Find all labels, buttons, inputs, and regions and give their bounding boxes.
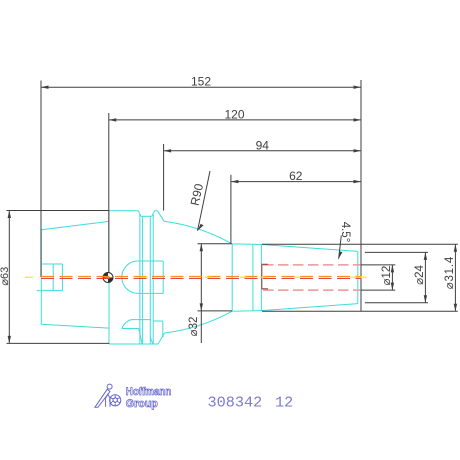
slot capsule top — [138, 260, 163, 262]
v-groove slant right — [152, 211, 155, 217]
left face stub — [37, 290, 43, 292]
ext line left of dim 62 — [230, 175, 232, 244]
svg-text:⌀63: ⌀63 — [0, 267, 11, 286]
svg-text:⌀31.4: ⌀31.4 — [444, 256, 456, 289]
dia24 dim line — [424, 252, 426, 302]
arrows dia24 — [424, 252, 427, 260]
arrows dim 94 — [164, 149, 172, 152]
v-groove line 1 — [139, 214, 141, 344]
slot capsule bottom — [138, 292, 163, 294]
svg-text:12: 12 — [275, 393, 293, 411]
arrow R90 leader — [198, 224, 204, 231]
nose chamfer circle line — [357, 251, 359, 303]
dia31.4 bottom ext — [262, 310, 458, 312]
flange face — [108, 211, 110, 344]
dia24 bottom ext — [365, 302, 428, 304]
dia12 top ext — [361, 264, 395, 266]
slot right step top — [153, 320, 163, 322]
v-groove bottom — [141, 215, 152, 217]
shank section bottom line — [41, 324, 109, 328]
slot scoop top line — [132, 319, 151, 321]
arrows dia32 — [200, 244, 203, 252]
logo gear dots — [115, 395, 116, 396]
4.5deg leader line — [339, 236, 342, 259]
arrows dia12 — [391, 265, 394, 273]
nose cone bottom — [261, 304, 357, 311]
flange chamfer bottom — [158, 333, 165, 344]
flange chamfer top — [158, 211, 165, 221]
coolant bore top — [42, 263, 62, 265]
dia32 bottom ext — [198, 310, 232, 312]
slot capsule right vertical — [162, 261, 164, 293]
slot capsule left arc — [122, 261, 138, 293]
dia24 top ext — [365, 251, 428, 253]
ext line left of dim 94 — [163, 144, 165, 211]
bore hidden line top — [263, 264, 360, 266]
dim 120 line — [109, 119, 361, 121]
slot notch slant right — [150, 337, 153, 344]
svg-text:62: 62 — [289, 169, 303, 183]
svg-text:Hoffmann: Hoffmann — [126, 386, 172, 398]
center line yellow ticks — [25, 276, 367, 278]
dia32 top ext — [198, 243, 232, 245]
shank taper top — [41, 221, 109, 229]
dim 94 line — [164, 150, 361, 152]
arrows dim 152 — [41, 86, 49, 89]
v-groove line 4 — [152, 214, 154, 344]
arrows dia31.4 — [454, 244, 457, 252]
neck cylinder mid vertical — [252, 244, 254, 311]
R90 neck arc top — [164, 221, 232, 244]
svg-text:308342: 308342 — [208, 393, 263, 411]
logo gear star — [113, 397, 118, 403]
R90 leader line — [198, 171, 211, 231]
bore bottom bracket — [262, 264, 268, 289]
slot scoop bottom line — [122, 328, 139, 330]
bore hidden line bottom — [263, 289, 360, 291]
dia12 dim line — [391, 265, 393, 290]
dia12 bottom ext — [361, 289, 395, 291]
center line red — [41, 277, 362, 279]
dia31.4 top ext — [262, 243, 458, 245]
dia63 top ext — [7, 210, 109, 212]
ext line left of dim 152 — [40, 81, 42, 278]
shank left face — [40, 230, 42, 324]
flange top left — [109, 210, 138, 212]
arrows dim 120 — [109, 118, 117, 121]
svg-text:120: 120 — [224, 107, 244, 121]
flange top right — [155, 210, 158, 212]
nose cone top — [261, 245, 357, 252]
v-groove slant left — [138, 211, 141, 217]
dim 62 line — [231, 181, 361, 183]
svg-text:⌀24: ⌀24 — [414, 265, 426, 285]
logo head — [107, 384, 112, 389]
dim 152 line — [41, 86, 361, 88]
logo body — [95, 389, 110, 407]
neck cylinder left vertical — [231, 244, 233, 311]
arrow 4.5deg leader — [339, 251, 343, 259]
coolant bore bottom — [42, 289, 62, 291]
balance mark dot — [103, 273, 113, 283]
slot notch slant left — [139, 329, 143, 345]
flange bottom — [109, 343, 158, 345]
neck cylinder top — [232, 243, 261, 246]
coolant bore right vertical — [61, 264, 63, 290]
R90 neck arc bottom — [165, 311, 233, 333]
arrows dia63 — [8, 211, 11, 219]
logo wordmark — [126, 386, 172, 410]
svg-text:Group: Group — [126, 398, 158, 410]
v-groove line 3 — [149, 216, 151, 344]
slot scoop arc — [122, 320, 132, 329]
neck cylinder bottom — [232, 310, 261, 313]
dia32 dim line — [200, 244, 202, 343]
ext line left of dim 120 — [108, 113, 110, 278]
coolant bore mid vertical — [52, 264, 54, 290]
dia63 bottom ext — [7, 342, 110, 344]
dia31.4 dim line — [454, 244, 456, 311]
svg-text:94: 94 — [256, 138, 270, 152]
logo gear circle — [110, 395, 121, 406]
svg-text:4.5°: 4.5° — [339, 222, 351, 243]
logo tent — [106, 394, 110, 407]
dia63 dim line — [8, 211, 10, 344]
center line orange — [41, 275, 362, 277]
v-groove line 2 — [142, 216, 144, 344]
svg-text:⌀12: ⌀12 — [381, 266, 393, 286]
svg-text:⌀32: ⌀32 — [188, 317, 200, 337]
slot right step vertical — [162, 321, 164, 338]
nose base vertical — [260, 245, 262, 311]
ext line right common — [360, 80, 362, 311]
arrows dim 62 — [231, 180, 239, 183]
svg-text:152: 152 — [191, 75, 211, 89]
